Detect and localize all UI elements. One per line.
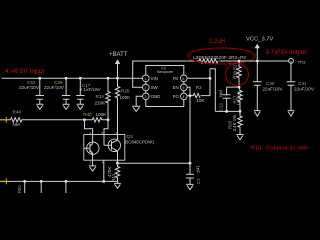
junction stubs below bottom rail <box>17 180 105 193</box>
ground Q3a emitter <box>89 160 96 171</box>
test point TP11 <box>289 59 306 65</box>
resistor R34 <box>95 77 111 120</box>
svg-text:EN: EN <box>173 85 179 90</box>
svg-text:0.1uF/16V: 0.1uF/16V <box>80 87 102 92</box>
op-amp U1 : regulator IC box <box>146 66 184 107</box>
svg-text:10K: 10K <box>196 98 205 103</box>
power +BATT <box>109 52 128 78</box>
wire FB routing <box>187 69 215 112</box>
svg-text:22uF/10V: 22uF/10V <box>263 87 284 92</box>
svg-text:3: 3 <box>144 95 146 99</box>
resistor R40 <box>83 112 109 122</box>
pin 3 GND <box>143 93 161 100</box>
svg-text:1: 1 <box>144 77 146 81</box>
resistor R25 <box>115 77 131 140</box>
power VCC_3.7V <box>246 37 274 61</box>
svg-text:R3: R3 <box>196 85 202 90</box>
capacitor C29 <box>44 77 70 109</box>
svg-text:4: 4 <box>182 95 184 99</box>
svg-text:6: 6 <box>182 77 184 81</box>
svg-text:+BATT: +BATT <box>109 52 128 58</box>
svg-text:4.–6.5V Input: 4.–6.5V Input <box>5 68 44 75</box>
svg-text:2.2uH: 2.2uH <box>209 39 225 45</box>
resistor R44 <box>9 118 85 122</box>
wire EN branch down <box>189 96 191 164</box>
svg-text:1nF: 1nF <box>196 166 201 174</box>
pin 2 SW <box>143 84 159 91</box>
svg-text:C2: C2 <box>196 179 201 185</box>
svg-text:R40: R40 <box>83 112 92 117</box>
wire input rail <box>2 77 143 79</box>
svg-text:100K: 100K <box>96 112 108 117</box>
svg-text:R25: R25 <box>121 88 130 93</box>
wire Q3b base elbow <box>104 120 108 146</box>
ground IC GND pin <box>132 96 142 111</box>
wire Q3a base pin to bottom rail <box>103 160 105 181</box>
pin 4 PG <box>173 93 188 100</box>
svg-text:22uF/10V: 22uF/10V <box>44 85 65 90</box>
wire base rail R44/R40 <box>0 110 85 127</box>
pin numbers Q3 box <box>90 131 118 165</box>
capacitor C17 <box>76 77 102 109</box>
capacitor C12 <box>219 87 231 111</box>
svg-text:PG: PG <box>173 94 180 99</box>
svg-text:3.7V/3A output: 3.7V/3A output <box>266 49 307 56</box>
svg-text:VCC_3.7V: VCC_3.7V <box>246 37 274 43</box>
svg-text:22uF/10V: 22uF/10V <box>294 87 315 92</box>
pin 5 EN <box>173 84 188 91</box>
wire Q3a collector elbow <box>85 120 93 140</box>
svg-text:VIN: VIN <box>151 76 158 81</box>
svg-text:R44: R44 <box>13 110 22 115</box>
svg-text:C31: C31 <box>298 81 307 86</box>
pin 1 VIN <box>143 75 158 82</box>
svg-text:5: 5 <box>182 86 184 90</box>
transistor Q3b <box>104 135 121 164</box>
svg-text:NM: NM <box>13 122 20 127</box>
inductor L1 <box>199 59 218 63</box>
svg-text:470K: 470K <box>107 167 112 177</box>
svg-text:FB: FB <box>173 76 179 81</box>
svg-text:R10 51: R10 51 <box>233 64 238 79</box>
svg-text:100K: 100K <box>120 95 132 100</box>
svg-text:NM: NM <box>219 90 224 97</box>
svg-text:C12: C12 <box>219 102 224 111</box>
svg-text:SW: SW <box>151 85 159 90</box>
node Y bar <box>227 86 239 88</box>
svg-text:TP11: TP11 <box>297 61 305 65</box>
svg-text:BC848CPDW1: BC848CPDW1 <box>125 139 155 144</box>
svg-text:100 1%: 100 1% <box>237 91 242 106</box>
capacitor C63 <box>19 77 44 109</box>
ground below rail at R43 <box>114 181 121 188</box>
capacitor C2 <box>186 163 201 189</box>
pin 6 FB <box>173 75 188 82</box>
svg-text:3.4K 1%: 3.4K 1% <box>232 115 237 132</box>
resistor R28 <box>228 111 244 139</box>
resistor R43 <box>107 163 120 182</box>
svg-text:2: 2 <box>144 86 146 90</box>
wire output rail <box>220 60 292 62</box>
wire bottom rail <box>0 179 118 185</box>
svg-text:22uF/10V: 22uF/10V <box>19 85 40 90</box>
capacitor C31 <box>287 61 315 116</box>
svg-text:R10 : 0 ohm or 51 ohm: R10 : 0 ohm or 51 ohm <box>251 145 309 151</box>
svg-text:220K: 220K <box>95 101 107 106</box>
resistor R10 <box>226 60 249 89</box>
wire SW to inductor <box>133 61 199 87</box>
svg-text:GND: GND <box>151 94 161 99</box>
wire Q3b emitter node to C2 <box>116 162 119 165</box>
svg-text:R34: R34 <box>96 94 105 99</box>
transistor Q3 box <box>84 134 155 160</box>
wire FB node <box>215 110 240 112</box>
svg-text:R50: R50 <box>17 185 22 193</box>
svg-text:C30: C30 <box>266 81 275 86</box>
resistor R3 <box>187 85 210 103</box>
capacitor C30 <box>253 60 283 117</box>
svg-text:Nanopower: Nanopower <box>157 70 174 74</box>
resistor R17 <box>232 87 242 111</box>
transistor Q3a <box>84 140 99 160</box>
